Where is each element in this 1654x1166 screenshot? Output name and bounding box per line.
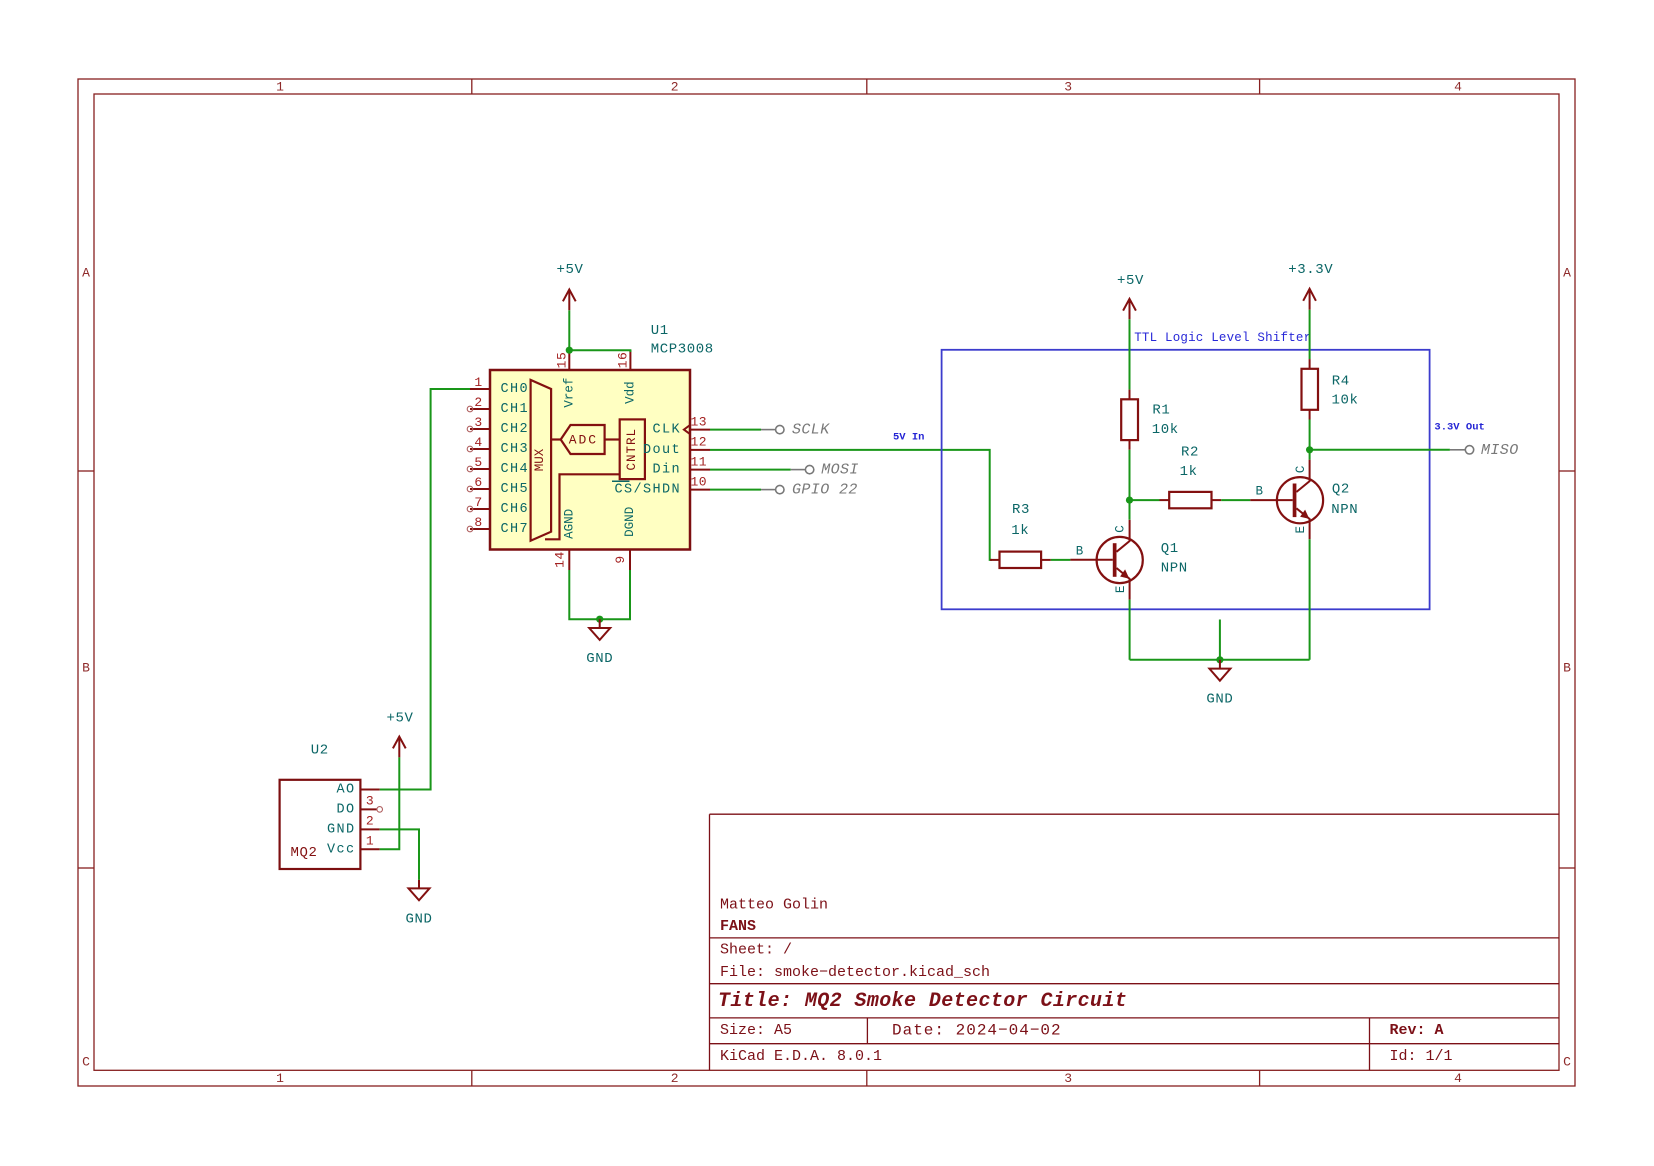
wire GND stub (1219, 620, 1221, 660)
svg-text:C: C (82, 1055, 90, 1070)
power +5V TTL (1123, 299, 1136, 320)
wire GND U2 (380, 829, 419, 880)
U2 pin 3 DO (360, 808, 377, 810)
svg-text:CH7: CH7 (501, 522, 530, 537)
svg-text:14: 14 (552, 551, 567, 568)
svg-text:Title: MQ2 Smoke Detector Circ: Title: MQ2 Smoke Detector Circuit (718, 990, 1127, 1013)
pin 11 Din (690, 469, 710, 471)
U1 internal AGND path (545, 474, 620, 539)
svg-text:+5V: +5V (1117, 273, 1144, 289)
svg-text:R2: R2 (1181, 445, 1199, 461)
power +5V U2 (393, 737, 406, 758)
pin 12 Dout (690, 449, 710, 451)
wire +5V down to R1 (1129, 319, 1131, 389)
svg-text:FANS: FANS (720, 918, 756, 935)
svg-text:8: 8 (474, 515, 482, 530)
pin 1 CH0 (470, 388, 490, 390)
svg-text:DGND: DGND (623, 507, 637, 537)
svg-text:DO: DO (336, 803, 355, 818)
svg-text:4: 4 (1454, 1071, 1462, 1086)
svg-text:File: smoke−detector.kicad_sch: File: smoke−detector.kicad_sch (720, 964, 990, 981)
wire GPIO 22 (710, 489, 761, 491)
svg-text:Date: 2024−04−02: Date: 2024−04−02 (892, 1022, 1062, 1040)
pin 10 CS/SHDN (690, 489, 710, 491)
svg-text:2: 2 (671, 80, 679, 95)
column tick marks top (471, 79, 473, 94)
svg-text:CS/SHDN: CS/SHDN (614, 483, 681, 498)
svg-text:3: 3 (1064, 80, 1072, 95)
svg-text:GND: GND (327, 823, 356, 838)
pin 7 CH6 (470, 508, 490, 510)
svg-text:3.3V Out: 3.3V Out (1434, 422, 1484, 434)
wire R2 to Q2 base (1221, 499, 1250, 501)
power +5V U1 (563, 290, 576, 311)
svg-text:CH6: CH6 (501, 502, 530, 517)
svg-text:10k: 10k (1152, 422, 1179, 438)
svg-text:MOSI: MOSI (821, 462, 859, 479)
svg-text:B: B (1076, 545, 1084, 559)
svg-text:GPIO 22: GPIO 22 (792, 482, 858, 499)
svg-text:GND: GND (586, 651, 613, 667)
svg-text:CLK: CLK (652, 423, 681, 438)
svg-text:CH4: CH4 (501, 462, 530, 477)
svg-text:CH3: CH3 (501, 442, 530, 457)
U1 internal line MUX to ADC (551, 438, 561, 440)
pin 16 Vdd (629, 350, 631, 370)
svg-text:1k: 1k (1011, 523, 1029, 539)
svg-text:9: 9 (613, 555, 628, 563)
wire pins 14,9 to GND (569, 570, 630, 619)
row tick marks left (78, 470, 94, 472)
svg-text:A: A (1563, 266, 1571, 281)
svg-text:16: 16 (615, 352, 630, 369)
svg-text:Id: 1/1: Id: 1/1 (1390, 1048, 1453, 1065)
svg-text:R3: R3 (1012, 502, 1030, 518)
svg-text:Din: Din (652, 463, 681, 478)
pin 4 CH3 (470, 448, 490, 450)
svg-text:ADC: ADC (569, 432, 598, 447)
U2 pin AO (360, 789, 379, 791)
node GND junction TTL (1216, 656, 1223, 663)
pin 13 CLK (690, 429, 710, 431)
svg-text:C: C (1563, 1055, 1571, 1070)
svg-text:CH1: CH1 (501, 402, 530, 417)
U1 internal ADC pentagon (561, 425, 605, 454)
node MISO junction (1306, 446, 1313, 453)
wire +5V to pins 15,16 (569, 310, 630, 352)
transistor Q1 (1070, 520, 1187, 600)
svg-text:E: E (1114, 586, 1128, 594)
node SCLK open circle (776, 425, 784, 433)
node GPIO 22 open circle (776, 485, 784, 493)
svg-text:15: 15 (554, 352, 569, 369)
svg-text:TTL Logic Level Shifter: TTL Logic Level Shifter (1134, 331, 1311, 345)
resistor R4 (1309, 359, 1311, 369)
pin 6 CH5 (470, 488, 490, 490)
transistor Q2 (1250, 460, 1358, 540)
wire junction down to Q1 collector (1129, 500, 1131, 520)
junction GND U1 (596, 616, 603, 623)
svg-text:3: 3 (1064, 1071, 1072, 1086)
IC U1 MCP3008 body (490, 370, 690, 550)
svg-text:Q1: Q1 (1161, 541, 1179, 557)
svg-text:5V In: 5V In (893, 432, 925, 444)
resistor R3 (1000, 552, 1042, 568)
pin 3 CH2 (470, 428, 490, 430)
svg-text:CH0: CH0 (501, 382, 530, 397)
svg-text:Size: A5: Size: A5 (720, 1022, 792, 1039)
node MOSI open circle (805, 465, 813, 473)
wire MOSI (710, 469, 791, 471)
svg-text:MUX: MUX (533, 448, 547, 471)
pin 9 DGND (629, 550, 631, 571)
svg-text:+5V: +5V (386, 710, 413, 726)
wire junction to MISO (1310, 449, 1450, 451)
svg-text:Rev: A: Rev: A (1390, 1022, 1444, 1039)
wire junction to R2 (1130, 499, 1160, 501)
svg-text:Matteo Golin: Matteo Golin (720, 897, 828, 914)
wire Dout to level shifter 5V In (710, 450, 992, 560)
U1 internal line ADC to CNTRL (605, 438, 620, 440)
wire Vcc to +5V (380, 757, 400, 849)
junction pin15 (566, 347, 573, 354)
svg-text:B: B (1255, 484, 1263, 498)
wire 5V In down to R3 (990, 559, 1000, 561)
svg-text:U1: U1 (651, 323, 669, 339)
svg-text:R1: R1 (1152, 403, 1170, 419)
svg-text:GND: GND (1206, 692, 1233, 708)
svg-text:7: 7 (474, 495, 482, 510)
svg-text:+3.3V: +3.3V (1288, 262, 1333, 278)
svg-text:C: C (1294, 466, 1308, 474)
svg-text:5: 5 (474, 455, 482, 470)
wire bottom rail (1130, 659, 1310, 661)
svg-text:2: 2 (474, 395, 482, 410)
svg-text:C: C (1114, 525, 1128, 533)
sheet inner border (94, 94, 1559, 1070)
title block frame (709, 814, 711, 1070)
svg-text:10k: 10k (1332, 392, 1359, 408)
wire R4 to MISO junction (1309, 420, 1311, 450)
svg-text:Vcc: Vcc (327, 842, 356, 857)
row tick marks right (1559, 470, 1575, 472)
svg-text:GND: GND (405, 911, 432, 927)
sensor U2 MQ2 body (280, 780, 361, 869)
wire R3 to Q1 base (1051, 559, 1071, 561)
svg-text:+5V: +5V (556, 262, 583, 278)
svg-text:13: 13 (690, 414, 707, 429)
ground under U2 (409, 880, 430, 900)
TTL Logic Level Shifter box (942, 350, 1430, 610)
U2 pin 2 GND (360, 828, 379, 830)
node R1/R2/Q1 junction (1126, 497, 1133, 504)
svg-text:KiCad E.D.A. 8.0.1: KiCad E.D.A. 8.0.1 (720, 1048, 882, 1065)
svg-text:CNTRL: CNTRL (625, 428, 639, 471)
svg-text:NPN: NPN (1161, 560, 1188, 576)
CS overbar (612, 480, 630, 482)
svg-text:11: 11 (690, 454, 707, 469)
svg-text:4: 4 (1454, 80, 1462, 95)
svg-text:SCLK: SCLK (792, 422, 830, 439)
svg-text:1: 1 (276, 1071, 284, 1086)
svg-text:6: 6 (474, 475, 482, 490)
svg-text:MISO: MISO (1481, 442, 1519, 459)
svg-text:Q2: Q2 (1332, 481, 1350, 497)
column tick marks bottom (471, 1070, 473, 1086)
svg-text:1: 1 (366, 833, 374, 848)
svg-text:12: 12 (690, 435, 707, 450)
U1 internal CNTRL box (620, 419, 645, 479)
svg-text:U2: U2 (311, 743, 329, 759)
svg-text:Dout: Dout (643, 443, 681, 458)
wire Q2 emitter down (1309, 539, 1311, 660)
svg-text:CH5: CH5 (501, 482, 530, 497)
wire Q1 emitter down (1129, 600, 1131, 660)
pin 2 CH1 (470, 408, 490, 410)
svg-text:AO: AO (336, 783, 355, 798)
svg-text:1k: 1k (1180, 464, 1198, 480)
wire SCLK (710, 429, 761, 431)
svg-text:Vdd: Vdd (623, 381, 637, 404)
power +3.3V TTL (1303, 289, 1316, 310)
wire CH0 to U2 AO (380, 389, 470, 790)
pin 5 CH4 (470, 468, 490, 470)
svg-text:4: 4 (474, 435, 482, 450)
svg-text:B: B (82, 661, 90, 676)
svg-text:R4: R4 (1332, 374, 1350, 390)
wire R1 to junction (1129, 450, 1131, 500)
svg-text:B: B (1563, 661, 1571, 676)
svg-text:1: 1 (474, 375, 482, 390)
svg-text:AGND: AGND (562, 509, 576, 539)
wire junction down to Q2 collector (1309, 450, 1311, 460)
svg-text:A: A (82, 266, 90, 281)
pin 15 Vref (568, 350, 570, 370)
svg-text:MCP3008: MCP3008 (651, 342, 714, 358)
resistor R2 (1160, 499, 1170, 501)
svg-text:CH2: CH2 (501, 422, 530, 437)
svg-text:1: 1 (276, 80, 284, 95)
svg-text:Vref: Vref (562, 378, 576, 408)
svg-text:NPN: NPN (1331, 502, 1358, 518)
U1 internal MUX trapezoid (531, 380, 552, 541)
svg-text:E: E (1294, 526, 1308, 534)
ground under TTL (1209, 660, 1230, 681)
wire +3.3V down to R4 (1309, 310, 1311, 359)
pin 8 CH7 (470, 528, 490, 530)
svg-text:MQ2: MQ2 (291, 845, 318, 861)
svg-text:3: 3 (366, 793, 374, 808)
svg-text:3: 3 (474, 415, 482, 430)
ground under U1 (589, 619, 610, 640)
svg-text:Sheet: /: Sheet: / (720, 942, 792, 959)
resistor R1 (1129, 390, 1131, 400)
node MISO open circle (1465, 446, 1473, 454)
svg-text:2: 2 (366, 813, 374, 828)
svg-text:2: 2 (671, 1071, 679, 1086)
svg-text:10: 10 (690, 474, 707, 489)
sheet outer border (78, 79, 1575, 1086)
pin 14 AGND (568, 550, 570, 571)
U2 pin 1 Vcc (360, 848, 379, 850)
